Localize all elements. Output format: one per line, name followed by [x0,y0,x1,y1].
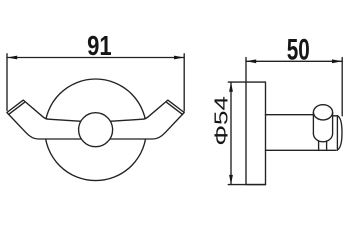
dia54 extension line top [228,81,246,83]
dim 91 line [7,57,184,59]
left hook arm [7,100,95,139]
dim 91 arrow left [7,56,17,60]
svg-text:Φ54: Φ54 [211,96,231,146]
dim 50 arrow right [332,59,342,63]
right view: plate rectangle [246,82,266,185]
dia54 arrow down [229,175,233,185]
far tip outer dome [337,116,342,150]
right tip chamfer line [167,102,183,114]
hub circle [79,113,113,147]
dim 91 extension line left [6,54,8,111]
post bottom edge [266,149,336,151]
dim 50 extension line left [245,58,247,83]
far tip top connector [333,115,338,117]
left tip chamfer line [9,102,25,114]
dim 91 extension line right [183,54,185,111]
dim 50 arrow left [246,59,256,63]
dia54 dim line [230,82,232,185]
knob body sides [313,112,332,133]
svg-text:91: 91 [87,30,112,61]
post top edge [266,114,315,116]
dia54 arrow up [229,82,233,92]
dia54 extension line bottom [228,184,265,186]
dim 50 extension line right [341,58,343,116]
dim 91 arrow right [174,56,184,60]
dim 50 line [246,60,342,62]
right hook arm [96,100,184,139]
far tip flat side [336,116,338,150]
left view: wall plate circle [45,79,147,181]
knob rounded bottom [313,134,332,142]
svg-text:50: 50 [287,34,310,67]
knob stem feet [319,141,327,150]
knob top ellipse [313,105,332,120]
